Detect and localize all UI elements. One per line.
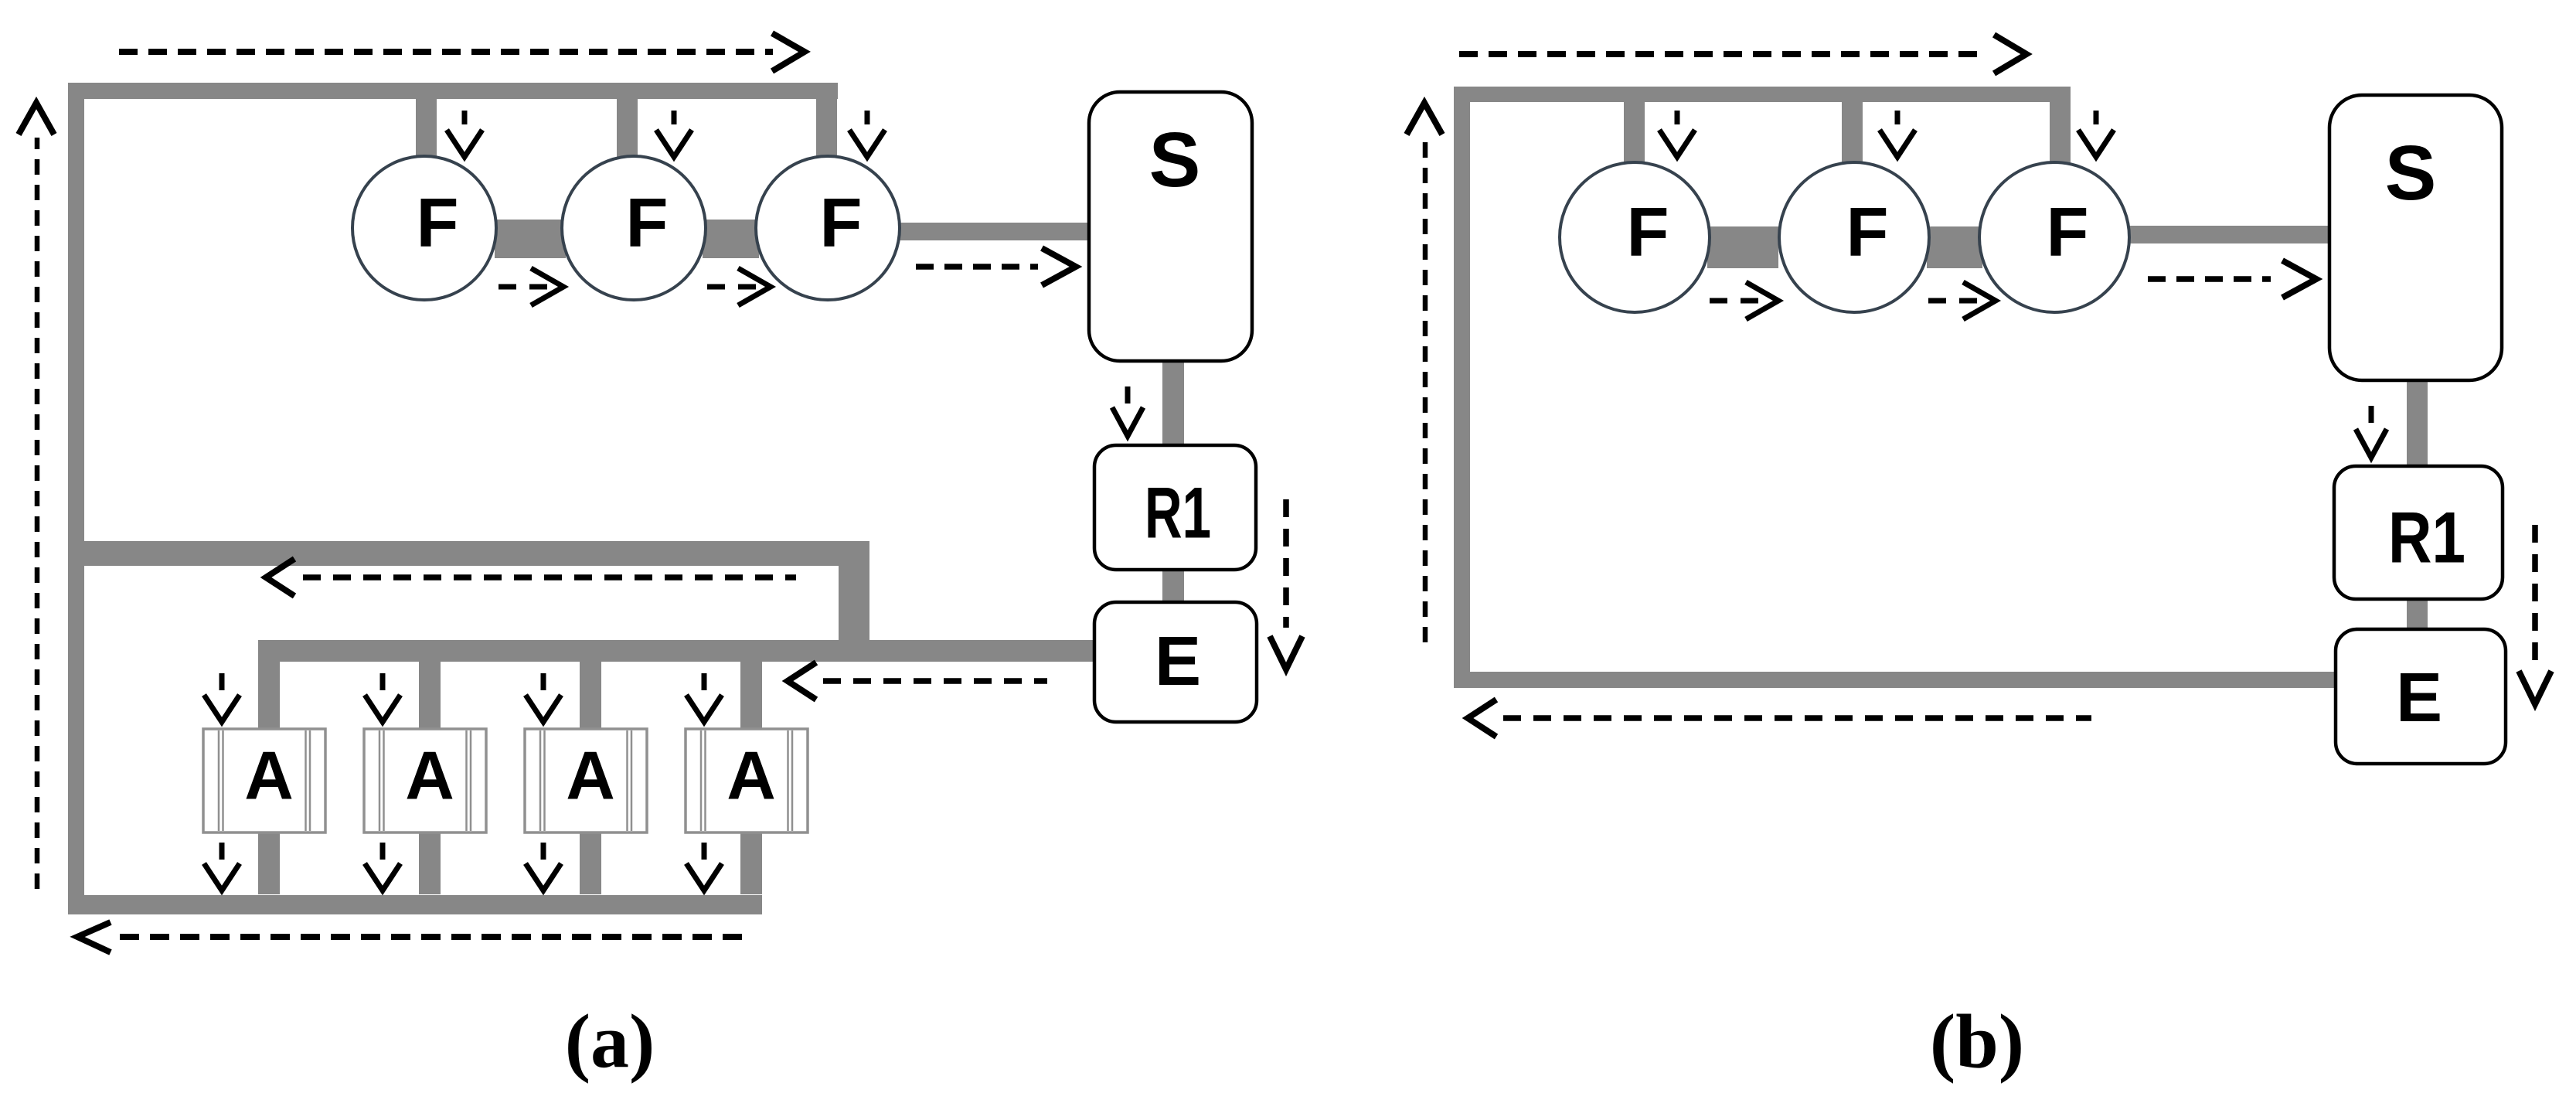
svg-text:R1: R1 xyxy=(1145,472,1211,553)
svg-text:F: F xyxy=(417,185,459,262)
svg-text:E: E xyxy=(1155,623,1201,700)
svg-text:A: A xyxy=(566,737,615,814)
svg-text:S: S xyxy=(1149,117,1201,203)
svg-text:(b): (b) xyxy=(1930,999,2024,1084)
svg-text:S: S xyxy=(2385,130,2437,216)
svg-text:E: E xyxy=(2396,659,2442,737)
svg-text:F: F xyxy=(1846,194,1889,271)
svg-text:A: A xyxy=(727,737,776,814)
svg-text:A: A xyxy=(405,737,454,814)
svg-text:F: F xyxy=(626,185,669,262)
svg-text:(a): (a) xyxy=(565,999,655,1084)
svg-text:A: A xyxy=(244,737,294,814)
svg-text:R1: R1 xyxy=(2388,497,2465,578)
svg-text:F: F xyxy=(2047,194,2089,271)
svg-text:F: F xyxy=(820,185,863,262)
svg-text:F: F xyxy=(1627,194,1669,271)
